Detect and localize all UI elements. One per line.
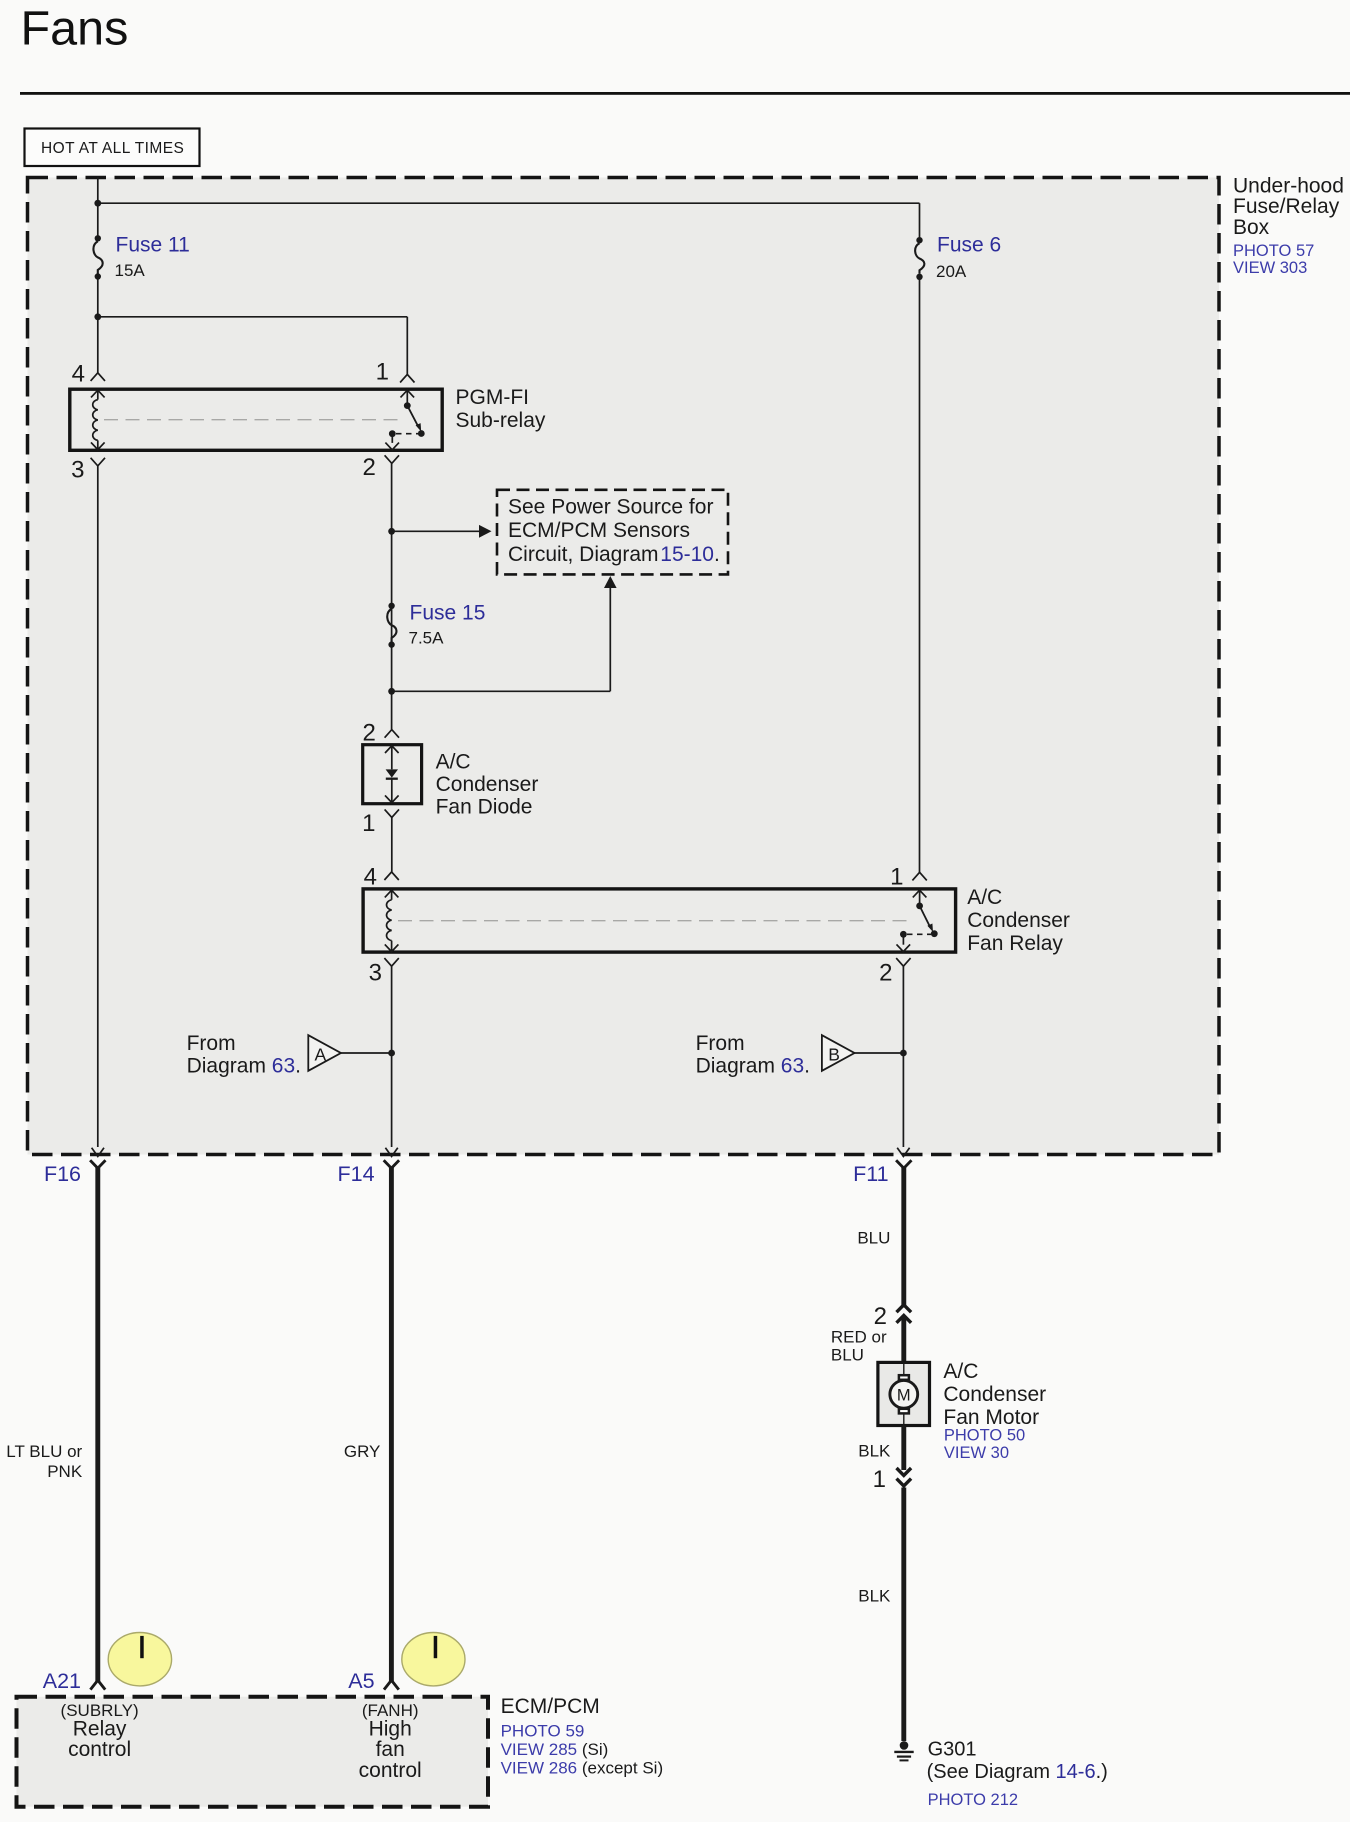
svg-text:4: 4	[72, 361, 85, 388]
power source label box: HOT AT ALL TIMES	[25, 129, 200, 167]
wire: A into F14 leg	[341, 1052, 392, 1054]
wire color label BLK (lower)	[858, 1587, 891, 1606]
svg-text:BLU: BLU	[831, 1346, 864, 1365]
svg-text:VIEW 286 (except Si): VIEW 286 (except Si)	[501, 1759, 664, 1778]
svg-text:LT BLU or: LT BLU or	[6, 1442, 82, 1461]
node A5 label	[348, 1669, 374, 1693]
relay switch contacts (pins 1-2)	[385, 390, 424, 450]
svg-text:F16: F16	[44, 1162, 81, 1186]
wire color label BLU	[857, 1228, 890, 1247]
svg-text:Diagram 63.: Diagram 63.	[187, 1054, 301, 1077]
svg-text:PNK: PNK	[47, 1462, 83, 1481]
connector terminal at F16	[90, 1160, 105, 1168]
svg-text:A5: A5	[348, 1669, 374, 1693]
fuse Fuse 15 (7.5A)	[387, 602, 485, 648]
svg-text:F14: F14	[338, 1162, 375, 1186]
wire: diode pin 1 to fan relay pin 4	[391, 818, 393, 872]
node: tap to ECM/PCM sensors power note	[388, 528, 395, 535]
node: junction of feed with top bus	[94, 200, 101, 207]
pin 1 label (fan diode)	[362, 810, 375, 837]
svg-text:3: 3	[71, 457, 84, 484]
svg-text:BLK: BLK	[858, 1442, 891, 1461]
wire: F16 harness (LT BLU or PNK)	[95, 1167, 100, 1682]
wire: top bus down to Fuse 6	[919, 203, 921, 240]
A/C Condenser Fan Diode name label	[436, 750, 539, 818]
svg-text:Condenser: Condenser	[436, 773, 539, 796]
svg-text:B: B	[828, 1044, 840, 1064]
terminal at fan relay pin 2	[896, 958, 910, 966]
pin 4 label (fan relay)	[364, 864, 377, 891]
svg-text:Condenser: Condenser	[943, 1383, 1046, 1406]
terminal at diode pin 2	[385, 730, 399, 738]
connector-from label B: From Diagram 63	[696, 1032, 855, 1078]
svg-text:ECM/PCM Sensors: ECM/PCM Sensors	[508, 519, 690, 542]
inline connector at motor pin 1	[897, 1468, 912, 1486]
node: branch junction to relay pin 1	[94, 313, 101, 320]
svg-text:See Power Source for: See Power Source for	[508, 496, 713, 519]
wire color label LT BLU or PNK	[6, 1442, 83, 1481]
svg-text:control: control	[359, 1759, 422, 1782]
svg-text:BLK: BLK	[858, 1587, 891, 1606]
ECM/PCM module (dashed box)	[17, 1697, 489, 1807]
svg-text:Fuse 6: Fuse 6	[937, 234, 1001, 257]
svg-text:Fuse/Relay: Fuse/Relay	[1233, 195, 1340, 218]
reference arrow into note box	[392, 525, 492, 538]
svg-text:Fan Diode: Fan Diode	[436, 796, 533, 819]
relay coil (pins 4-3)	[91, 390, 105, 449]
Under-hood Fuse/Relay Box label	[1233, 174, 1344, 276]
wire: branch across to PGM-FI sub-relay pin 1	[98, 317, 408, 375]
svg-text:Sub-relay: Sub-relay	[456, 409, 546, 432]
pin 2 label (fan relay)	[879, 960, 892, 987]
svg-text:Fans: Fans	[21, 1, 129, 55]
ECM pin function: (FANH) High fan control	[359, 1701, 422, 1782]
svg-text:PHOTO 50: PHOTO 50	[944, 1427, 1025, 1445]
node A21 label	[43, 1669, 81, 1693]
svg-text:1: 1	[873, 1466, 886, 1493]
svg-text:2: 2	[362, 454, 375, 481]
svg-text:Fuse 15: Fuse 15	[410, 602, 486, 625]
wire: motor to connector pin 1 (BLK)	[901, 1426, 906, 1471]
wire: connector down to ground G301 (BLK)	[901, 1488, 906, 1742]
pin 1 label (PGM-FI sub-relay)	[376, 359, 389, 386]
connector terminal at F14	[384, 1160, 399, 1168]
fan relay switch contacts (pins 1-2)	[897, 890, 938, 951]
svg-text:From: From	[187, 1032, 236, 1055]
inline connector at motor pin 2	[897, 1305, 912, 1323]
terminal at pin 2	[385, 455, 399, 463]
svg-text:7.5A: 7.5A	[409, 629, 445, 648]
svg-text:Diagram 63.: Diagram 63.	[696, 1054, 810, 1077]
svg-text:Box: Box	[1233, 216, 1270, 239]
pin 1 label (fan relay)	[890, 864, 903, 891]
wire: B into F11 leg	[855, 1052, 904, 1054]
svg-text:4: 4	[364, 864, 377, 891]
svg-text:control: control	[68, 1738, 131, 1761]
connector terminal at F11	[896, 1160, 911, 1168]
exit arrow at F14 through box edge	[385, 1148, 397, 1157]
svg-text:2: 2	[874, 1303, 887, 1330]
wire: PGM-FI pin 2 down to A/C condenser fan diode	[391, 463, 393, 729]
connector-from label A: From Diagram 63	[187, 1032, 341, 1078]
svg-text:2: 2	[879, 960, 892, 987]
svg-text:RED or: RED or	[831, 1328, 887, 1347]
page title "Fans"	[21, 1, 129, 55]
Under-hood Fuse/Relay Box (dashed enclosure)	[28, 178, 1220, 1155]
node: junction A	[388, 1050, 395, 1057]
pin 3 label (fan relay)	[369, 960, 382, 987]
svg-text:From: From	[696, 1032, 745, 1055]
svg-text:GRY: GRY	[344, 1442, 381, 1461]
wire: fan relay pin 2 down to F11	[902, 966, 904, 1147]
terminal at pin 1	[400, 374, 414, 382]
relay internal dashed divider	[104, 419, 400, 421]
terminal at pin 4	[91, 373, 105, 381]
motor pin 1 label	[873, 1466, 886, 1493]
title underline rule	[20, 92, 1350, 95]
node: junction B	[900, 1050, 907, 1057]
ground G301 label	[927, 1739, 1108, 1810]
fan relay internal dashed divider	[398, 920, 912, 922]
terminal at fan relay pin 1	[912, 872, 926, 880]
svg-text:F11: F11	[853, 1162, 888, 1186]
relay K2 A/C Condenser Fan Relay body	[363, 889, 956, 952]
ECM pin function: (SUBRLY) Relay control	[61, 1701, 139, 1761]
wire color label BLK	[858, 1442, 891, 1461]
svg-text:fan: fan	[376, 1738, 405, 1761]
diode D1 A/C Condenser Fan Diode body	[363, 745, 422, 804]
svg-text:15A: 15A	[115, 261, 146, 280]
motor M1 A/C Condenser Fan Motor body	[878, 1362, 930, 1425]
svg-text:VIEW 30: VIEW 30	[944, 1444, 1009, 1462]
svg-text:3: 3	[369, 960, 382, 987]
wire color label RED or BLU	[831, 1328, 887, 1365]
terminal at A5	[384, 1680, 399, 1689]
diode symbol	[385, 746, 399, 803]
wire: connector to motor (RED or BLU)	[901, 1317, 906, 1362]
pin 2 label (fan diode)	[362, 719, 375, 746]
A/C Condenser Fan Motor name label	[943, 1360, 1046, 1462]
svg-text:A: A	[315, 1044, 327, 1064]
wire: F11 harness (BLU)	[901, 1167, 906, 1308]
exit arrow at F16 through box edge	[92, 1148, 104, 1157]
pin 2 label (PGM-FI sub-relay)	[362, 454, 375, 481]
note box: See Power Source for ECM/PCM Sensors Circuit	[497, 490, 728, 575]
svg-text:HOT AT ALL TIMES: HOT AT ALL TIMES	[41, 140, 184, 157]
svg-text:VIEW 285 (Si): VIEW 285 (Si)	[501, 1740, 609, 1759]
terminal at pin 3	[91, 458, 105, 466]
svg-text:(See Diagram 14-6.): (See Diagram 14-6.)	[927, 1761, 1108, 1783]
svg-text:Condenser: Condenser	[967, 909, 1070, 932]
wire: Fuse 6 down to fan relay pin 1	[919, 277, 921, 873]
svg-text:VIEW 303: VIEW 303	[1233, 259, 1307, 277]
wire: fan relay pin 3 down to F14	[391, 966, 393, 1147]
ECM/PCM name label	[501, 1695, 664, 1778]
node F16 label	[44, 1162, 81, 1186]
svg-text:A/C: A/C	[943, 1360, 978, 1383]
terminal at fan relay pin 4	[384, 872, 398, 880]
pin 3 label (PGM-FI sub-relay)	[71, 457, 84, 484]
svg-text:High: High	[369, 1717, 412, 1740]
reference arrow up into note box	[392, 576, 617, 691]
wire: top horizontal bus to Fuse 6	[98, 202, 920, 204]
svg-text:Fan Relay: Fan Relay	[967, 932, 1063, 955]
fan relay coil (pins 4-3)	[385, 890, 399, 951]
svg-text:A21: A21	[43, 1669, 81, 1693]
svg-text:A/C: A/C	[436, 750, 471, 773]
fuse Fuse 6 (20A)	[915, 234, 1001, 281]
wire: Fuse 11 to PGM-FI sub-relay pin 4	[97, 277, 99, 373]
node: tap returning up to note box	[388, 688, 395, 695]
svg-text:M: M	[897, 1387, 911, 1405]
svg-text:ECM/PCM: ECM/PCM	[501, 1695, 600, 1718]
motor internals: brushes and armature M	[890, 1362, 918, 1425]
terminal at fan relay pin 3	[384, 958, 398, 966]
svg-text:2: 2	[362, 719, 375, 746]
node F14 label	[338, 1162, 375, 1186]
wire: F14 harness (GRY)	[389, 1167, 394, 1682]
svg-text:PHOTO 212: PHOTO 212	[928, 1791, 1018, 1809]
svg-text:1: 1	[376, 359, 389, 386]
svg-text:PHOTO 59: PHOTO 59	[501, 1721, 585, 1740]
svg-text:Circuit, Diagram 15-10.: Circuit, Diagram 15-10.	[508, 543, 720, 566]
svg-text:20A: 20A	[936, 262, 967, 281]
svg-text:Relay: Relay	[73, 1717, 127, 1740]
fuse Fuse 11 (15A)	[93, 234, 189, 281]
wire: PGM-FI pin 3 down to F16	[97, 466, 99, 1147]
terminal at diode pin 1	[385, 809, 399, 817]
terminal at A21	[90, 1680, 105, 1689]
svg-text:1: 1	[362, 810, 375, 837]
motor pin 2 label	[874, 1303, 887, 1330]
node F11 label	[853, 1162, 888, 1186]
wire: battery feed from box top edge down to Fuse 11	[97, 177, 99, 239]
A/C Condenser Fan Relay name label	[967, 886, 1070, 955]
PGM-FI Sub-relay name label	[456, 386, 546, 432]
svg-text:A/C: A/C	[967, 886, 1002, 909]
exit arrow at F11 through box edge	[897, 1148, 909, 1157]
connector bubble at A5	[402, 1633, 465, 1686]
svg-text:PGM-FI: PGM-FI	[456, 386, 530, 409]
svg-text:BLU: BLU	[857, 1228, 890, 1247]
pin 4 label (PGM-FI sub-relay)	[72, 361, 85, 388]
ground G301 symbol	[894, 1741, 913, 1760]
wire color label GRY	[344, 1442, 381, 1461]
svg-text:Fuse 11: Fuse 11	[116, 234, 190, 257]
relay K1 PGM-FI Sub-relay body	[70, 389, 442, 450]
svg-text:Under-hood: Under-hood	[1233, 174, 1344, 197]
svg-text:G301: G301	[928, 1739, 977, 1761]
svg-text:1: 1	[890, 864, 903, 891]
svg-text:PHOTO 57: PHOTO 57	[1233, 242, 1314, 260]
connector bubble at A21	[108, 1633, 171, 1686]
